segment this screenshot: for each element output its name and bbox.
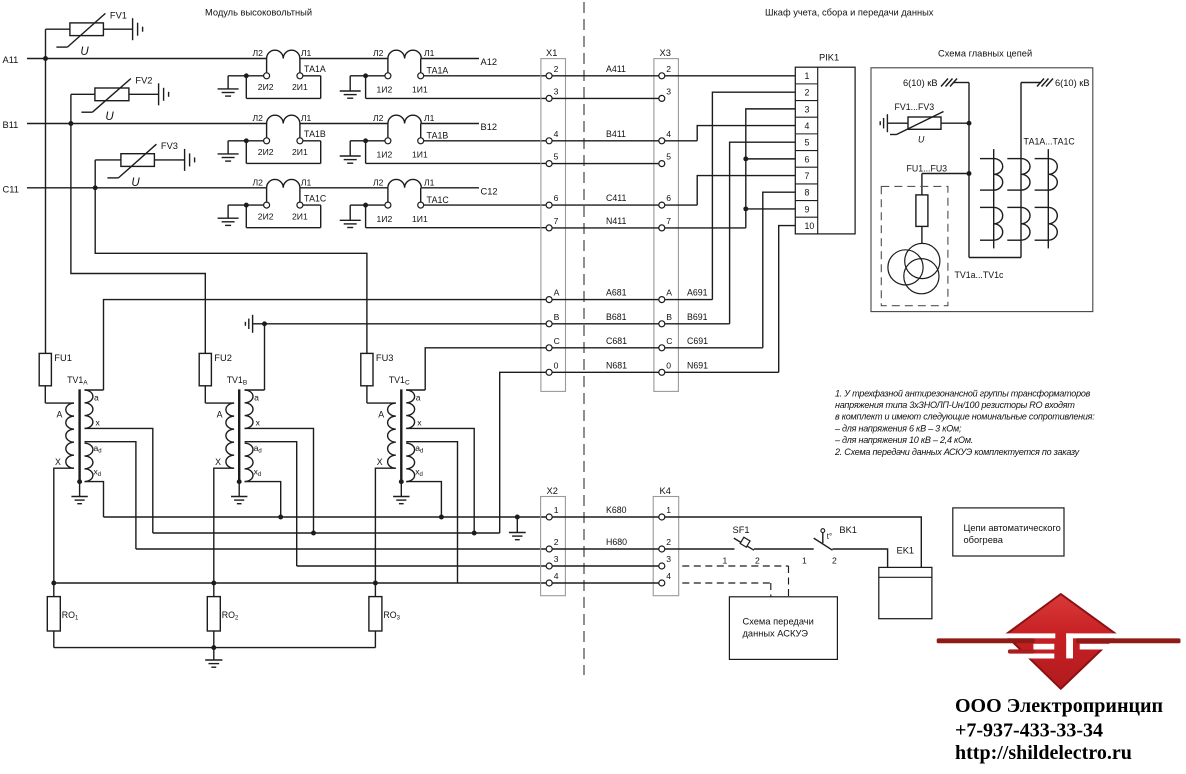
wire X1-X3 row 7 N411 <box>552 216 659 228</box>
svg-text:6: 6 <box>666 193 671 203</box>
svg-text:2И2: 2И2 <box>258 147 274 157</box>
wire X2-2 to K4-2 label H680 <box>552 537 659 549</box>
transformer TV1a auxiliary winding ad-xd <box>85 442 136 549</box>
terminal strip X1 <box>541 48 566 391</box>
wire X1-X3 row 0 N681 <box>552 360 659 372</box>
svg-text:A681: A681 <box>606 288 627 298</box>
svg-text:B: B <box>554 312 560 322</box>
terminal strip X3 <box>654 48 679 391</box>
transformer TV1b core <box>231 389 247 503</box>
junction phase A to arrester <box>43 56 48 61</box>
svg-text:EK1: EK1 <box>897 546 915 556</box>
node A12 phase output label <box>481 57 498 67</box>
svg-text:4: 4 <box>554 129 559 139</box>
svg-text:– для напряжения 10 кВ – 2,4 к: – для напряжения 10 кВ – 2,4 кОм. <box>834 435 973 445</box>
svg-text:ТА1B: ТА1B <box>304 129 326 139</box>
transformer TV1c secondary winding a-x <box>406 390 474 533</box>
svg-text:данных АСКУЭ: данных АСКУЭ <box>743 629 809 639</box>
transformer TV1c label <box>389 375 410 387</box>
svg-text:PIK1: PIK1 <box>819 53 839 63</box>
transformer TV1b auxiliary winding ad-xd <box>245 442 297 566</box>
svg-text:2И1: 2И1 <box>292 147 308 157</box>
svg-text:ТА1A: ТА1A <box>427 66 449 76</box>
wire resistor bottom bus with ground <box>54 645 376 667</box>
svg-text:TV1B: TV1B <box>227 375 247 387</box>
svg-text:FU3: FU3 <box>376 353 394 363</box>
svg-text:RO3: RO3 <box>383 610 400 622</box>
svg-text:A: A <box>666 288 672 298</box>
svg-text:B411: B411 <box>606 129 626 139</box>
transformer TV1c auxiliary winding ad-xd <box>406 442 457 583</box>
svg-text:Л1: Л1 <box>301 48 312 58</box>
svg-text:х: х <box>417 418 422 428</box>
svg-text:X: X <box>215 457 221 467</box>
svg-text:RO2: RO2 <box>222 610 239 622</box>
svg-text:аd: аd <box>254 443 262 455</box>
wire PIK1 pin 8 to row C <box>763 192 796 348</box>
svg-text:K4: K4 <box>660 486 671 496</box>
current transformer TA1A winding 1И <box>340 48 449 98</box>
wire X1-X3 row B B681 <box>552 312 659 324</box>
svg-text:X1: X1 <box>546 48 557 58</box>
svg-text:Л1: Л1 <box>424 177 435 187</box>
wire bus w4 to X2-3 <box>297 565 547 567</box>
svg-text:обогрева: обогрева <box>964 535 1004 545</box>
wire PIK1 pin 5 to row B <box>730 142 796 324</box>
svg-text:4: 4 <box>805 121 810 131</box>
transformer TV1c primary winding A-X <box>367 386 396 583</box>
logo ООО Электропринцип diamond <box>937 594 1181 689</box>
svg-text:http://shildelectro.ru: http://shildelectro.ru <box>955 742 1132 764</box>
svg-text:10: 10 <box>805 221 815 231</box>
wire row B with ground to TV1b <box>245 315 546 390</box>
resistor RO3 <box>369 583 401 648</box>
svg-text:7: 7 <box>805 171 810 181</box>
svg-text:3: 3 <box>805 104 810 114</box>
main circuits scheme title <box>938 49 1032 59</box>
svg-text:2: 2 <box>666 537 671 547</box>
wire X2-1 to K4-1 label K680 <box>552 505 659 517</box>
wire K4-2 to breaker SF1 <box>665 548 735 550</box>
svg-text:FV3: FV3 <box>161 141 178 151</box>
transformer TV1a label <box>67 375 88 387</box>
fuses FU1..FU3 in main scheme <box>907 164 972 244</box>
svg-text:C12: C12 <box>481 186 498 196</box>
svg-text:В11: В11 <box>3 120 19 130</box>
wire TA1C secondary to X1 <box>366 205 546 228</box>
node А11 phase input label <box>3 55 19 65</box>
transformer TV1b primary winding A-X <box>205 386 234 583</box>
wire K4-4 dashed to ASKUE box <box>682 583 771 597</box>
surge arrester FV1 <box>46 10 143 58</box>
svg-text:Л1: Л1 <box>301 113 312 123</box>
wire resistor bus (w5) to X2-4 <box>51 581 546 586</box>
svg-text:1И2: 1И2 <box>377 150 393 160</box>
svg-text:в комплект и имеют следующие н: в комплект и имеют следующие номинальные… <box>835 412 1095 422</box>
svg-text:ООО Электропринцип: ООО Электропринцип <box>955 695 1163 717</box>
wire K4-3 dashed to ASKUE box <box>682 566 788 597</box>
svg-text:2: 2 <box>554 537 559 547</box>
svg-text:N411: N411 <box>606 216 626 226</box>
wire row C to TV1c <box>425 348 546 390</box>
svg-text:4: 4 <box>554 571 559 581</box>
wire C11 feed down to FU3 <box>95 188 367 354</box>
label 6(10) kV right with break marks <box>1037 78 1090 88</box>
svg-text:1: 1 <box>666 505 671 515</box>
svg-text:FV1: FV1 <box>110 10 127 20</box>
svg-text:2: 2 <box>805 88 810 98</box>
wire K4-1 to heater EK1 (K680) <box>665 517 922 567</box>
svg-text:2И1: 2И1 <box>292 82 308 92</box>
svg-text:0: 0 <box>666 360 671 370</box>
svg-text:t°: t° <box>827 532 832 541</box>
svg-text:A411: A411 <box>606 64 626 74</box>
svg-text:Модуль высоковольтный: Модуль высоковольтный <box>205 8 312 18</box>
svg-text:2И1: 2И1 <box>292 211 308 221</box>
wire X2-4 to K4-4 <box>552 582 659 584</box>
surge arrester FV2 <box>71 76 169 124</box>
svg-text:7: 7 <box>554 216 559 226</box>
wire TA1A secondary to X1 <box>366 76 546 99</box>
svg-text:Л1: Л1 <box>301 177 312 187</box>
svg-text:U: U <box>80 46 89 58</box>
svg-text:С681: С681 <box>606 336 627 346</box>
svg-text:4: 4 <box>666 129 671 139</box>
junction phase C to arrester <box>93 185 98 190</box>
svg-text:2: 2 <box>554 64 559 74</box>
svg-text:6: 6 <box>805 154 810 164</box>
svg-text:TV1A: TV1A <box>67 375 88 387</box>
svg-text:1: 1 <box>805 71 810 81</box>
logo phone number <box>955 720 1103 742</box>
svg-text:A: A <box>217 410 223 420</box>
wire bus H680 (w3) to X2-2 <box>136 548 546 550</box>
transformer TV1a secondary winding a-x <box>85 390 153 533</box>
svg-text:X: X <box>377 457 383 467</box>
svg-text:5: 5 <box>805 138 810 148</box>
wire X1-X3 row 3 <box>552 97 659 99</box>
svg-text:2И2: 2И2 <box>258 82 274 92</box>
wire PIK1 pin 3 to N411 with taps to pins 6 and 9 <box>665 109 796 228</box>
svg-text:2: 2 <box>755 556 760 566</box>
svg-text:FV1...FV3: FV1...FV3 <box>895 102 935 112</box>
svg-text:ТА1B: ТА1B <box>427 131 449 141</box>
node В11 phase input label <box>3 120 19 130</box>
separator dashed line between module and cabinet <box>583 2 585 675</box>
svg-text:2. Схема передачи данных АСКУЭ: 2. Схема передачи данных АСКУЭ комплекту… <box>834 447 1080 457</box>
svg-text:х: х <box>256 418 261 428</box>
svg-text:7: 7 <box>666 216 671 226</box>
transformer TV1a primary winding A-X <box>45 386 74 583</box>
svg-text:Схема передачи: Схема передачи <box>743 617 814 627</box>
svg-text:B: B <box>666 312 672 322</box>
wire X1-X3 row C С681 <box>552 336 659 348</box>
svg-text:хd: хd <box>254 467 262 479</box>
svg-text:N681: N681 <box>606 360 627 370</box>
svg-text:X: X <box>55 457 61 467</box>
svg-text:1И2: 1И2 <box>377 85 393 95</box>
svg-text:2И2: 2И2 <box>258 211 274 221</box>
svg-text:8: 8 <box>805 188 810 198</box>
svg-text:1И1: 1И1 <box>412 150 428 160</box>
node C12 phase output label <box>481 186 498 196</box>
svg-text:C: C <box>554 336 560 346</box>
transformer TV1a core <box>71 389 87 503</box>
wire bus K680 (w1) to X2-1 with ground <box>104 515 547 540</box>
svg-text:+7-937-433-33-34: +7-937-433-33-34 <box>955 720 1103 742</box>
svg-text:Схема главных цепей: Схема главных цепей <box>938 49 1032 59</box>
svg-text:1: 1 <box>554 505 559 515</box>
wire X2-3 to K4-3 <box>552 565 659 567</box>
wire X1-X3 row 6 С411 <box>552 193 659 205</box>
svg-text:6: 6 <box>554 193 559 203</box>
wire right HV bus <box>1021 83 1041 258</box>
svg-text:4: 4 <box>666 571 671 581</box>
svg-text:3: 3 <box>666 86 671 96</box>
fuse FU1 <box>39 353 72 386</box>
wire B11 feed down to FU2 <box>71 124 205 354</box>
terminal strip K4 <box>653 486 679 596</box>
wire phase A horizontal rail <box>27 58 479 60</box>
wire X1-X3 row 4 B411 <box>552 129 659 141</box>
svg-text:A12: A12 <box>481 57 498 67</box>
wire phase B horizontal rail <box>27 123 479 125</box>
svg-text:а: а <box>416 393 421 403</box>
svg-text:а: а <box>254 393 259 403</box>
logo site url <box>955 742 1132 764</box>
svg-text:TV1а...TV1с: TV1а...TV1с <box>955 270 1004 280</box>
main circuits scheme outer box <box>871 68 1093 312</box>
wire PIK1 pin 7 to X3-6 (C411) <box>665 176 796 206</box>
junction phase B to arrester <box>68 121 73 126</box>
wire X1-X3 row A A681 <box>552 288 659 300</box>
thermal contact BK1 <box>802 525 857 566</box>
wire PIK1 pin 10 to row 0 <box>779 226 796 373</box>
svg-text:Цепи автоматического: Цепи автоматического <box>964 523 1061 533</box>
svg-text:TV1C: TV1C <box>389 375 410 387</box>
surge arrester FV3 <box>95 141 194 189</box>
label 6(10) kV left with break marks <box>903 78 957 88</box>
svg-text:A: A <box>554 288 560 298</box>
wire X1-X3 row 2 A411 <box>552 64 659 76</box>
svg-text:Л1: Л1 <box>424 113 435 123</box>
svg-text:1: 1 <box>723 556 728 566</box>
svg-text:Л1: Л1 <box>424 48 435 58</box>
wire X3 row A A691 <box>665 288 713 300</box>
wire TA1B secondary to X1 <box>366 141 546 164</box>
logo company name <box>955 695 1163 717</box>
svg-text:6(10) кВ: 6(10) кВ <box>903 78 938 88</box>
svg-text:X2: X2 <box>547 486 558 496</box>
wire BK1 to heater EK1 <box>833 549 888 567</box>
svg-text:BK1: BK1 <box>839 525 857 535</box>
svg-text:FU2: FU2 <box>214 353 232 363</box>
svg-text:0: 0 <box>554 360 559 370</box>
svg-text:1И1: 1И1 <box>412 214 428 224</box>
svg-text:N691: N691 <box>687 360 708 370</box>
current transformer TA1B winding 2И (primary arcs on phase B) <box>218 113 326 163</box>
svg-text:напряжения типа 3хЗНОЛП-Uн/100: напряжения типа 3хЗНОЛП-Uн/100 резисторы… <box>835 400 1075 410</box>
current transformer TA1A winding 2И (primary arcs on phase A) <box>218 48 326 98</box>
svg-text:хd: хd <box>94 467 102 479</box>
svg-text:ТА1C: ТА1C <box>304 193 327 203</box>
heater EK1 <box>879 546 932 619</box>
current transformer TA1C winding 1И <box>340 177 450 227</box>
wire A11 feed down to FU1 <box>45 59 47 354</box>
svg-text:B12: B12 <box>481 122 498 132</box>
device PIK1 box <box>795 53 855 234</box>
svg-text:Л2: Л2 <box>373 113 384 123</box>
svg-text:U: U <box>918 135 925 145</box>
wire X1-X3 row 5 <box>552 163 659 165</box>
wire PIK1 pin 2 to row A <box>712 92 795 299</box>
svg-text:3: 3 <box>554 86 559 96</box>
wire X3 row C С691 <box>665 336 763 348</box>
svg-text:Л2: Л2 <box>253 177 264 187</box>
wire row A to TV1a <box>104 300 547 390</box>
svg-text:A: A <box>57 410 63 420</box>
svg-text:ТА1А...ТА1С: ТА1А...ТА1С <box>1024 137 1076 147</box>
svg-text:X3: X3 <box>660 48 671 58</box>
svg-text:Л2: Л2 <box>253 48 264 58</box>
svg-text:аd: аd <box>415 443 423 455</box>
svg-text:FU1: FU1 <box>54 353 72 363</box>
svg-text:SF1: SF1 <box>733 525 750 535</box>
svg-text:А11: А11 <box>3 55 19 65</box>
svg-text:1И2: 1И2 <box>377 214 393 224</box>
dashed box around fuse and transformers <box>881 186 948 305</box>
svg-text:RO1: RO1 <box>62 610 79 622</box>
svg-text:C: C <box>666 336 672 346</box>
node B12 phase output label <box>481 122 498 132</box>
svg-text:Шкаф учета, сбора и передачи д: Шкаф учета, сбора и передачи данных <box>765 8 934 18</box>
svg-text:Л2: Л2 <box>253 113 264 123</box>
notes text block <box>834 388 1095 457</box>
header: high-voltage module title <box>205 8 312 18</box>
transformers TV1a..TV1c circles <box>888 243 1004 293</box>
terminal strip X2 <box>541 486 566 596</box>
svg-text:FV2: FV2 <box>135 76 152 86</box>
fuse FU2 <box>199 353 232 386</box>
transformer TV1b label <box>227 375 247 387</box>
header: metering cabinet title <box>765 8 934 18</box>
wire X3 row 0 N691 <box>665 360 779 372</box>
svg-text:Л2: Л2 <box>373 177 384 187</box>
svg-text:1. У трехфазной антирезонансно: 1. У трехфазной антирезонансной группы т… <box>835 388 1091 398</box>
wire X3-2 to PIK1 pin 1 <box>665 75 796 77</box>
svg-text:1И1: 1И1 <box>412 85 428 95</box>
svg-text:2: 2 <box>832 556 837 566</box>
svg-text:3: 3 <box>666 554 671 564</box>
svg-text:B691: B691 <box>687 312 708 322</box>
svg-text:3: 3 <box>554 554 559 564</box>
svg-text:5: 5 <box>666 152 671 162</box>
box ASKUE data transfer scheme <box>729 597 837 660</box>
current transformer TA1B winding 1И <box>340 113 449 163</box>
node С11 phase input label <box>3 184 19 194</box>
svg-text:1: 1 <box>802 556 807 566</box>
transformer TV1c core <box>393 389 409 503</box>
current transformer TA1C winding 2И (primary arcs on phase C) <box>218 177 327 227</box>
resistor RO2 <box>207 583 239 648</box>
wire row 0 down to neutral bus w2 <box>500 372 546 533</box>
wire neutral bus (w2) <box>153 531 500 536</box>
transformer TV1b secondary winding a-x <box>245 390 314 533</box>
svg-text:С11: С11 <box>3 184 19 194</box>
svg-text:5: 5 <box>554 152 559 162</box>
svg-text:A691: A691 <box>687 288 708 298</box>
fuse FU3 <box>361 353 394 386</box>
svg-text:A: A <box>378 410 384 420</box>
svg-text:ТА1C: ТА1C <box>427 195 450 205</box>
wire SF1 to thermal contact BK1 <box>754 548 814 550</box>
wire PIK1 pin 4 to X3-4 (B411) <box>665 126 796 141</box>
svg-text:6(10) кВ: 6(10) кВ <box>1055 78 1090 88</box>
svg-text:Л2: Л2 <box>373 48 384 58</box>
svg-text:2: 2 <box>666 64 671 74</box>
box automatic heating circuits label <box>953 508 1064 556</box>
svg-text:а: а <box>94 393 99 403</box>
svg-text:FU1...FU3: FU1...FU3 <box>907 164 948 174</box>
svg-text:U: U <box>105 111 114 123</box>
svg-text:B681: B681 <box>606 312 627 322</box>
wire X3 row B B691 <box>665 312 730 324</box>
svg-text:ТА1A: ТА1A <box>304 64 326 74</box>
svg-text:хd: хd <box>415 467 423 479</box>
svg-text:K680: K680 <box>606 505 627 515</box>
wire phase C horizontal rail <box>27 187 479 189</box>
svg-text:H680: H680 <box>606 537 627 547</box>
surge arresters FV1..FV3 in main scheme <box>880 102 971 145</box>
svg-text:9: 9 <box>805 204 810 214</box>
wire left HV bus <box>953 83 1021 258</box>
svg-text:– для напряжения 6 кВ – 3 кОм;: – для напряжения 6 кВ – 3 кОм; <box>834 423 962 433</box>
svg-text:С691: С691 <box>687 336 708 346</box>
breaker SF1 <box>723 525 761 566</box>
svg-text:U: U <box>131 177 140 189</box>
current transformers TA1A..TA1C windings in main scheme <box>980 137 1075 249</box>
svg-text:С411: С411 <box>606 193 626 203</box>
resistor RO1 <box>47 583 79 648</box>
svg-text:аd: аd <box>94 443 102 455</box>
svg-text:х: х <box>96 418 101 428</box>
